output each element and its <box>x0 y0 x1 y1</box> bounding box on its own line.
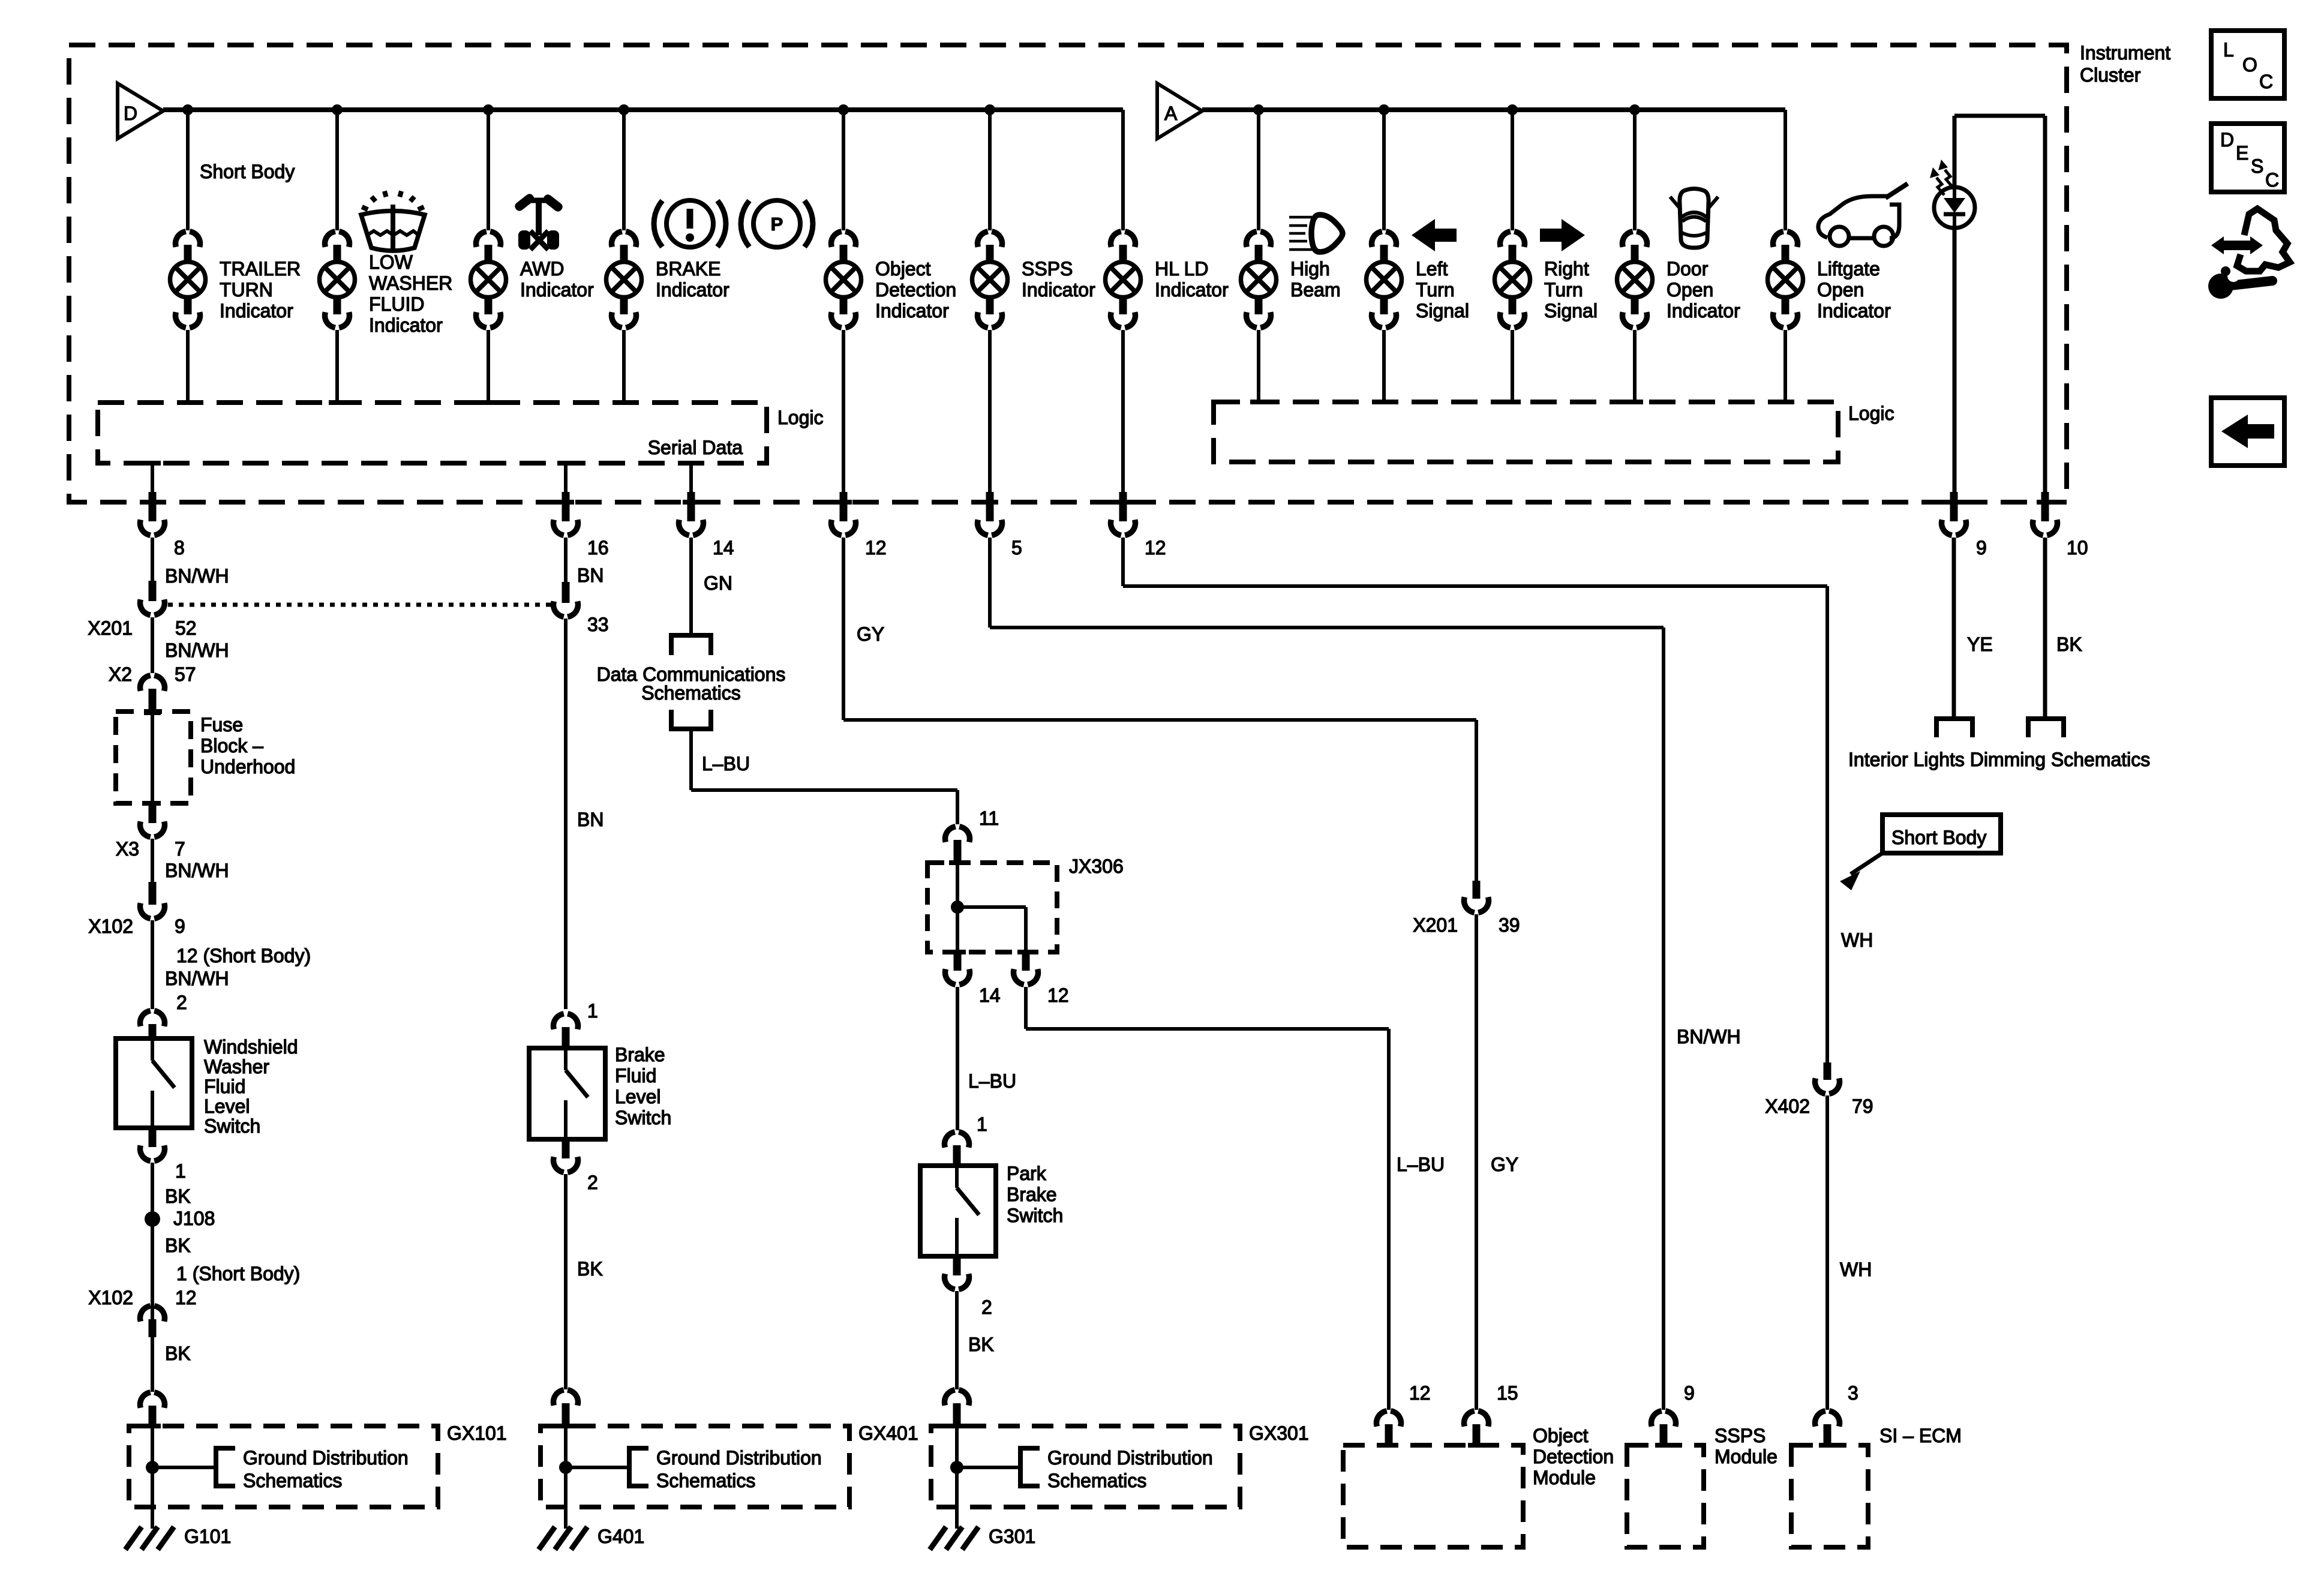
svg-text:WH: WH <box>1840 1259 1872 1280</box>
svg-text:16: 16 <box>587 537 609 559</box>
svg-text:Indicator: Indicator <box>369 314 443 336</box>
svg-text:Brake: Brake <box>615 1044 665 1065</box>
svg-text:5: 5 <box>1011 537 1022 559</box>
svg-text:52: 52 <box>175 617 197 639</box>
svg-text:Indicator: Indicator <box>520 279 594 301</box>
svg-text:Object: Object <box>1533 1425 1589 1446</box>
svg-text:J108: J108 <box>173 1208 215 1229</box>
svg-text:Signal: Signal <box>1416 300 1469 322</box>
svg-text:9: 9 <box>1976 537 1987 559</box>
svg-text:S: S <box>2251 155 2263 177</box>
svg-text:O: O <box>2242 54 2257 76</box>
svg-text:1: 1 <box>175 1160 186 1182</box>
svg-text:Switch: Switch <box>204 1115 260 1137</box>
svg-text:G301: G301 <box>989 1526 1035 1547</box>
svg-text:Object: Object <box>875 258 931 280</box>
svg-text:Switch: Switch <box>615 1107 671 1128</box>
svg-text:WASHER: WASHER <box>369 272 452 294</box>
svg-text:12 (Short Body): 12 (Short Body) <box>176 945 311 966</box>
svg-text:BN/WH: BN/WH <box>165 565 229 587</box>
svg-text:Park: Park <box>1007 1163 1047 1184</box>
svg-text:Block –: Block – <box>200 735 263 757</box>
svg-text:1: 1 <box>587 1000 598 1022</box>
svg-text:Short Body: Short Body <box>1891 827 1986 848</box>
svg-text:G401: G401 <box>597 1526 644 1547</box>
svg-text:BN/WH: BN/WH <box>165 860 229 881</box>
svg-text:X3: X3 <box>116 838 139 860</box>
svg-text:12: 12 <box>865 537 887 559</box>
svg-text:2: 2 <box>981 1296 992 1318</box>
svg-text:P: P <box>771 214 783 235</box>
svg-text:Turn: Turn <box>1416 279 1455 301</box>
svg-text:Underhood: Underhood <box>200 756 295 778</box>
svg-text:Liftgate: Liftgate <box>1817 258 1880 280</box>
svg-text:9: 9 <box>175 915 185 937</box>
svg-text:79: 79 <box>1852 1095 1873 1117</box>
svg-text:L–BU: L–BU <box>702 753 750 775</box>
svg-text:Instrument: Instrument <box>2080 42 2170 64</box>
svg-text:GX101: GX101 <box>447 1422 507 1444</box>
svg-text:Fluid: Fluid <box>615 1065 656 1086</box>
svg-text:SSPS: SSPS <box>1715 1425 1765 1446</box>
svg-text:11: 11 <box>979 807 999 829</box>
svg-text:FLUID: FLUID <box>369 293 424 315</box>
svg-text:15: 15 <box>1497 1382 1518 1404</box>
svg-text:GY: GY <box>1491 1154 1518 1175</box>
svg-text:Schematics: Schematics <box>243 1470 342 1491</box>
svg-text:Turn: Turn <box>1544 279 1583 301</box>
svg-text:Left: Left <box>1416 258 1448 280</box>
svg-text:Schematics: Schematics <box>1047 1470 1146 1491</box>
svg-text:Open: Open <box>1817 279 1864 301</box>
svg-text:9: 9 <box>1684 1382 1695 1404</box>
svg-text:7: 7 <box>175 838 185 860</box>
svg-text:Indicator: Indicator <box>1817 300 1891 322</box>
svg-text:Fuse: Fuse <box>200 714 243 736</box>
svg-text:E: E <box>2236 142 2248 164</box>
svg-text:BK: BK <box>577 1258 603 1280</box>
svg-text:Right: Right <box>1544 258 1589 280</box>
svg-text:JX306: JX306 <box>1069 855 1124 877</box>
svg-text:X2: X2 <box>109 664 132 685</box>
svg-text:Indicator: Indicator <box>656 279 729 301</box>
svg-text:L–BU: L–BU <box>968 1070 1016 1092</box>
svg-text:Module: Module <box>1533 1467 1596 1488</box>
svg-text:Indicator: Indicator <box>1667 300 1740 322</box>
svg-text:Brake: Brake <box>1007 1184 1057 1205</box>
svg-text:Detection: Detection <box>875 279 956 301</box>
svg-text:YE: YE <box>1967 634 1993 655</box>
svg-text:BK: BK <box>968 1334 994 1355</box>
svg-text:BN/WH: BN/WH <box>1677 1026 1741 1047</box>
svg-text:Level: Level <box>615 1086 661 1107</box>
svg-text:GX301: GX301 <box>1249 1422 1309 1444</box>
svg-text:BK: BK <box>165 1185 191 1207</box>
svg-text:Interior Lights Dimming Schema: Interior Lights Dimming Schematics <box>1848 749 2150 770</box>
svg-text:Door: Door <box>1667 258 1709 280</box>
svg-text:Logic: Logic <box>1848 403 1894 424</box>
svg-text:Indicator: Indicator <box>1155 279 1229 301</box>
svg-text:HL LD: HL LD <box>1155 258 1209 280</box>
svg-text:Indicator: Indicator <box>875 300 949 322</box>
svg-text:C: C <box>2259 71 2273 92</box>
svg-text:Signal: Signal <box>1544 300 1598 322</box>
svg-text:Indicator: Indicator <box>220 300 293 322</box>
svg-text:Indicator: Indicator <box>1022 279 1095 301</box>
svg-text:AWD: AWD <box>520 258 564 280</box>
svg-text:BN/WH: BN/WH <box>165 640 229 661</box>
svg-text:Open: Open <box>1667 279 1713 301</box>
svg-text:14: 14 <box>979 984 1001 1006</box>
svg-text:Logic: Logic <box>777 407 824 428</box>
svg-text:L–BU: L–BU <box>1397 1154 1445 1175</box>
svg-text:BN: BN <box>577 565 603 586</box>
svg-text:39: 39 <box>1499 914 1520 936</box>
svg-text:Module: Module <box>1715 1446 1777 1467</box>
svg-text:Serial Data: Serial Data <box>648 437 743 458</box>
svg-text:Fluid: Fluid <box>204 1076 245 1097</box>
svg-text:12: 12 <box>1145 537 1166 559</box>
svg-text:BK: BK <box>2056 634 2082 655</box>
svg-text:12: 12 <box>175 1287 197 1308</box>
svg-text:Beam: Beam <box>1290 279 1341 301</box>
svg-text:Windshield: Windshield <box>204 1036 298 1058</box>
svg-text:BK: BK <box>165 1343 191 1364</box>
svg-text:Cluster: Cluster <box>2080 64 2141 86</box>
svg-text:GX401: GX401 <box>858 1422 918 1444</box>
svg-text:2: 2 <box>176 992 187 1013</box>
svg-text:Ground Distribution: Ground Distribution <box>1047 1447 1213 1469</box>
svg-text:Level: Level <box>204 1095 250 1117</box>
svg-text:BRAKE: BRAKE <box>656 258 720 280</box>
svg-text:Short Body: Short Body <box>200 161 295 182</box>
svg-text:SI – ECM: SI – ECM <box>1879 1425 1962 1446</box>
svg-text:D: D <box>124 103 137 124</box>
svg-text:Schematics: Schematics <box>656 1470 755 1491</box>
svg-text:12: 12 <box>1409 1382 1431 1404</box>
svg-text:57: 57 <box>175 664 196 685</box>
svg-text:WH: WH <box>1841 929 1873 951</box>
svg-text:A: A <box>1164 103 1178 124</box>
svg-text:SSPS: SSPS <box>1022 258 1073 280</box>
svg-text:BK: BK <box>165 1235 191 1256</box>
svg-text:3: 3 <box>1848 1382 1858 1404</box>
svg-text:X402: X402 <box>1765 1095 1810 1117</box>
svg-text:X102: X102 <box>88 915 133 937</box>
svg-text:Schematics: Schematics <box>641 682 740 704</box>
svg-text:LOW: LOW <box>369 251 413 273</box>
svg-text:33: 33 <box>587 614 609 635</box>
svg-text:GY: GY <box>857 623 884 645</box>
svg-text:Detection: Detection <box>1533 1446 1614 1467</box>
svg-text:Ground Distribution: Ground Distribution <box>656 1447 822 1469</box>
svg-text:X102: X102 <box>88 1287 133 1308</box>
svg-text:Washer: Washer <box>204 1056 269 1077</box>
svg-text:14: 14 <box>713 537 734 559</box>
svg-text:High: High <box>1290 258 1330 280</box>
svg-text:X201: X201 <box>88 617 133 639</box>
svg-text:L: L <box>2223 39 2234 61</box>
svg-text:TURN: TURN <box>220 279 273 301</box>
svg-text:BN: BN <box>577 809 603 830</box>
svg-text:D: D <box>2220 129 2234 151</box>
svg-text:G101: G101 <box>184 1526 231 1547</box>
svg-text:2: 2 <box>587 1172 598 1193</box>
svg-text:GN: GN <box>704 572 732 594</box>
svg-text:C: C <box>2265 169 2279 191</box>
svg-text:8: 8 <box>174 537 185 559</box>
svg-text:1: 1 <box>977 1113 987 1135</box>
svg-text:Switch: Switch <box>1007 1205 1063 1226</box>
svg-text:Ground Distribution: Ground Distribution <box>243 1447 409 1469</box>
svg-text:10: 10 <box>2067 537 2088 559</box>
svg-text:1 (Short Body): 1 (Short Body) <box>176 1263 300 1284</box>
svg-text:BN/WH: BN/WH <box>165 968 229 989</box>
svg-text:X201: X201 <box>1413 914 1458 936</box>
svg-text:TRAILER: TRAILER <box>220 258 301 280</box>
svg-text:12: 12 <box>1047 984 1069 1006</box>
